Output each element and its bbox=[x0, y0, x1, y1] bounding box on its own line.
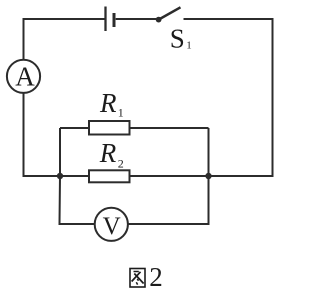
resistor R1 bbox=[89, 121, 130, 135]
svg-text:1: 1 bbox=[186, 40, 192, 52]
label R2 bbox=[99, 138, 124, 170]
svg-text:1: 1 bbox=[118, 106, 124, 120]
svg-text:S: S bbox=[170, 24, 185, 54]
wire R1 branch left horizontal bbox=[60, 127, 89, 129]
wire main line right of R2 bbox=[130, 175, 209, 177]
svg-text:R: R bbox=[99, 138, 117, 168]
battery bbox=[106, 7, 115, 32]
wire R1 branch right horizontal bbox=[130, 127, 209, 129]
node right junction bbox=[205, 173, 211, 179]
label S1 bbox=[170, 24, 192, 54]
resistor R2 bbox=[89, 170, 130, 182]
label R1 bbox=[99, 88, 124, 119]
ammeter A bbox=[7, 60, 40, 93]
wire R1 branch right vertical bbox=[208, 128, 210, 176]
svg-text:2: 2 bbox=[118, 157, 124, 171]
svg-text:2: 2 bbox=[149, 262, 163, 292]
wire voltmeter branch left bbox=[60, 176, 95, 224]
svg-text:A: A bbox=[15, 62, 35, 92]
voltmeter V bbox=[95, 208, 128, 241]
caption 图2 bbox=[130, 262, 163, 292]
wire R1 branch left vertical bbox=[59, 128, 61, 176]
wire voltmeter branch right bbox=[128, 176, 209, 224]
svg-text:V: V bbox=[103, 213, 121, 240]
wire battery to switch bbox=[116, 18, 157, 20]
wire top-left bbox=[24, 19, 106, 60]
wire switch to right side bbox=[184, 19, 273, 176]
wire left lower bbox=[24, 93, 61, 176]
svg-text:R: R bbox=[99, 88, 117, 118]
node left junction bbox=[57, 173, 63, 179]
wire main line left of R2 bbox=[60, 175, 89, 177]
switch S1 bbox=[156, 7, 181, 22]
